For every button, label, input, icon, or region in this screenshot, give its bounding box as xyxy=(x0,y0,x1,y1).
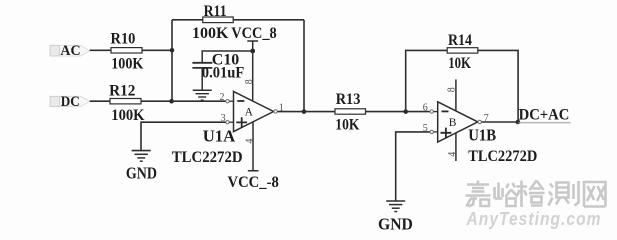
svg-text:VCC_8: VCC_8 xyxy=(231,25,277,42)
svg-text:10K: 10K xyxy=(448,55,471,72)
svg-text:0.01uF: 0.01uF xyxy=(202,64,245,81)
svg-text:AnyTesting.com: AnyTesting.com xyxy=(466,209,602,229)
power VCC_8 terminal xyxy=(231,25,277,51)
svg-text:R11: R11 xyxy=(204,3,227,20)
svg-text:6: 6 xyxy=(423,103,428,114)
svg-text:TLC2272D: TLC2272D xyxy=(468,148,537,165)
pin 5 circle xyxy=(423,123,438,134)
svg-text:DC+AC: DC+AC xyxy=(519,107,570,124)
pin 7 output U1B xyxy=(478,113,489,124)
svg-text:R10: R10 xyxy=(111,30,136,47)
svg-text:10K: 10K xyxy=(335,116,360,133)
svg-text:100K: 100K xyxy=(111,107,145,124)
ground GND U1B xyxy=(386,201,405,212)
junction node R10/feedback xyxy=(170,48,175,53)
port AC xyxy=(50,43,90,59)
junction output node xyxy=(516,120,521,125)
svg-text:U1B: U1B xyxy=(468,125,496,144)
svg-text:DC: DC xyxy=(61,94,80,110)
wire feedback loop R14 xyxy=(406,50,518,122)
ground GND U1A xyxy=(132,151,151,162)
pin 8 U1B xyxy=(447,79,458,111)
ground C10 xyxy=(193,90,212,100)
resistor R14 xyxy=(447,32,478,72)
pin 4 U1A to VCC_-8 xyxy=(228,122,279,191)
pin 2 circle xyxy=(220,92,234,103)
svg-text:2: 2 xyxy=(220,92,225,103)
svg-text:GND: GND xyxy=(378,215,413,234)
op-amp U1B xyxy=(438,102,538,165)
watermark 嘉峪检测网 (hand drawn strokes) xyxy=(466,181,606,208)
wire output to R13 xyxy=(278,111,336,113)
wire DC to R12 xyxy=(90,100,110,102)
svg-text:8: 8 xyxy=(447,87,458,92)
svg-text:TLC2272D: TLC2272D xyxy=(172,149,243,166)
capacitor C10 xyxy=(192,52,244,90)
junction VCC node xyxy=(250,49,255,54)
pin 8 U1A xyxy=(244,51,255,101)
wire VCC_8 to C10 and pin 8 xyxy=(202,51,253,63)
wire AC to R10 xyxy=(90,49,111,51)
resistor R10 xyxy=(111,30,144,72)
svg-text:U1A: U1A xyxy=(203,126,236,145)
wire R13 to pin 6 xyxy=(366,111,430,113)
watermark AnyTesting.com xyxy=(466,209,602,229)
svg-text:100K: 100K xyxy=(192,25,229,42)
wire thin net stub under DC+AC xyxy=(518,122,571,124)
wire R12 to op-amp pin 2 xyxy=(141,100,226,102)
wire R11 right vertical down to output xyxy=(303,20,305,112)
op-amp U1A xyxy=(172,91,274,165)
pin 6 circle xyxy=(423,103,438,114)
pin 3 circle xyxy=(221,113,234,124)
junction pin6/feedback R14 xyxy=(403,109,408,114)
label GND U1A xyxy=(126,163,157,182)
resistor R13 xyxy=(335,91,366,133)
wire pin 3 to ground xyxy=(141,122,226,150)
svg-text:B: B xyxy=(449,117,457,129)
resistor R12 xyxy=(109,82,145,124)
svg-text:8: 8 xyxy=(244,79,255,84)
wire pin 5 to ground xyxy=(396,132,430,201)
junction node summing xyxy=(169,99,174,104)
label DC+AC xyxy=(519,107,570,124)
svg-text:AC: AC xyxy=(60,43,80,59)
wire R10 to node xyxy=(142,49,172,51)
wire top feedback R11 net xyxy=(172,19,304,21)
junction output/feedback R11 xyxy=(302,109,307,114)
wire output to DC+AC xyxy=(482,121,518,123)
svg-text:4: 4 xyxy=(244,139,255,144)
svg-text:R14: R14 xyxy=(448,32,472,49)
svg-text:GND: GND xyxy=(126,163,157,182)
port DC xyxy=(50,94,90,110)
wire left vertical summing bus xyxy=(171,20,173,101)
pin 4 U1B xyxy=(447,133,458,161)
svg-text:VCC_-8: VCC_-8 xyxy=(228,174,279,191)
svg-text:4: 4 xyxy=(447,152,458,157)
label GND U1B xyxy=(378,215,413,234)
svg-text:R13: R13 xyxy=(336,91,361,108)
svg-text:100K: 100K xyxy=(111,55,144,72)
svg-text:A: A xyxy=(245,107,254,119)
resistor R11 xyxy=(192,3,233,42)
pin 1 output U1A xyxy=(274,103,284,114)
svg-text:R12: R12 xyxy=(109,82,135,99)
